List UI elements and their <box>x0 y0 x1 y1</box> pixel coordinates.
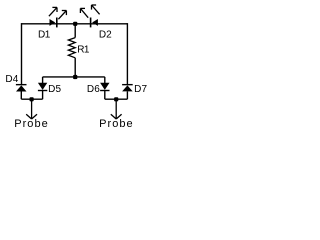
node center bottom junction <box>73 75 77 79</box>
wire D5 drop <box>42 77 44 83</box>
svg-text:D5: D5 <box>48 84 61 95</box>
svg-text:D1: D1 <box>38 30 51 41</box>
wire left rail <box>21 23 23 84</box>
svg-text:D7: D7 <box>134 84 147 95</box>
resistor R1 <box>68 38 75 58</box>
svg-text:Probe: Probe <box>14 118 49 130</box>
wire D4 bottom <box>20 92 22 100</box>
svg-text:Probe: Probe <box>99 118 134 130</box>
wire R1 bottom stub <box>74 58 76 77</box>
wire top rail <box>22 23 128 25</box>
diode D6 <box>100 83 109 91</box>
probe arrow right <box>111 99 122 119</box>
svg-text:D2: D2 <box>99 30 112 41</box>
LED D2 <box>80 5 99 27</box>
diode D7 <box>122 85 133 92</box>
wire right rail <box>126 23 128 84</box>
node right probe junction <box>114 97 118 101</box>
wire right probe bus <box>105 98 128 100</box>
wire left probe bus <box>21 98 42 100</box>
node left probe junction <box>30 97 34 101</box>
svg-text:D4: D4 <box>5 74 18 85</box>
probe arrow left <box>26 99 37 119</box>
svg-text:R1: R1 <box>77 45 90 56</box>
diode D4 <box>16 85 27 92</box>
wire center top stub <box>74 24 76 38</box>
diode D5 <box>38 83 47 91</box>
wire D6 bottom <box>104 91 106 100</box>
wire D7 bottom <box>126 91 128 99</box>
svg-text:D6: D6 <box>87 84 100 95</box>
wire center bottom rail <box>43 76 105 78</box>
wire D5 bottom <box>42 91 44 100</box>
LED D1 <box>49 7 67 27</box>
node top junction <box>73 22 77 26</box>
wire D6 drop <box>104 77 106 83</box>
